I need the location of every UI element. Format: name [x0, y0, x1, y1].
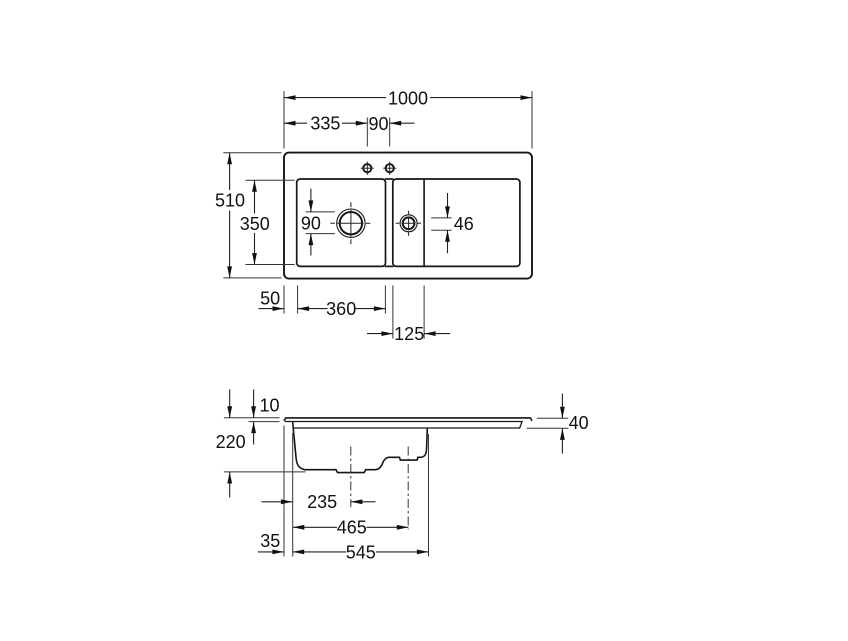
main bowl (top view) — [297, 179, 386, 266]
svg-text:90: 90 — [368, 114, 388, 134]
dimension 90 (main drain diameter) — [301, 189, 335, 256]
dimension 335 (left edge to tap hole) — [284, 114, 367, 134]
dimension 10 (rim thickness) — [224, 390, 280, 445]
bowl profile (side view section) — [293, 422, 428, 473]
svg-text:235: 235 — [307, 492, 337, 512]
extension line at bowl right wall (side view) — [428, 434, 430, 557]
svg-text:35: 35 — [260, 531, 280, 551]
svg-text:220: 220 — [216, 432, 246, 452]
dimension 46 (half bowl drain diameter) — [431, 193, 474, 253]
half bowl and drainboard border (top view) — [393, 179, 520, 266]
divider line between half bowl and drainboard — [423, 179, 425, 266]
tap hole 2 — [383, 162, 396, 175]
svg-text:46: 46 — [454, 214, 474, 234]
rim underside and drainboard surface (side view) — [285, 422, 522, 429]
main drain centre line (side view) — [350, 447, 352, 508]
tap hole 1 — [361, 162, 374, 175]
dimension 465 (bowl edge to half bowl drain centre) — [293, 518, 409, 538]
svg-text:360: 360 — [326, 299, 356, 319]
svg-text:465: 465 — [337, 518, 367, 538]
svg-text:90: 90 — [301, 214, 321, 234]
dimension 220 (bowl depth) — [216, 390, 306, 498]
dimension 50 (left edge to bowl) — [259, 288, 285, 311]
sink outer outline (top view) — [284, 153, 532, 279]
svg-text:10: 10 — [259, 396, 279, 416]
bottom edge segment across bowl divider — [385, 265, 394, 267]
half bowl drain hole — [396, 211, 421, 236]
dimension 545 (bowl edge to bowl right wall) — [293, 542, 429, 562]
dimension 125 (half bowl width) — [367, 324, 450, 344]
svg-text:510: 510 — [215, 190, 245, 210]
dimension 235 (bowl edge to main drain centre) — [262, 492, 376, 512]
main bowl drain hole — [330, 202, 371, 245]
half bowl drain centre line (side view) — [407, 447, 409, 530]
dimension 350 (bowl depth, left) — [240, 180, 295, 264]
svg-text:50: 50 — [260, 288, 280, 308]
dimension 40 (rim height, right) — [527, 394, 589, 454]
svg-text:335: 335 — [310, 114, 340, 134]
svg-text:40: 40 — [569, 413, 589, 433]
dimension 360 (main bowl width) — [298, 299, 386, 319]
svg-text:350: 350 — [240, 214, 270, 234]
svg-text:1000: 1000 — [388, 88, 428, 108]
extension line at sink left edge (side view) — [283, 426, 285, 557]
dimension 510 (overall depth, left) — [215, 153, 282, 278]
dimension 90 (tap hole spacing) — [367, 114, 414, 147]
svg-text:125: 125 — [394, 324, 424, 344]
dimension 1000 (overall width, top) — [284, 88, 532, 148]
dimension 35 (sink edge to bowl) — [258, 531, 284, 554]
extension line at bowl left wall (side view) — [292, 433, 294, 557]
svg-text:545: 545 — [346, 542, 376, 562]
top edge segment across bowl divider — [385, 178, 394, 180]
rim top surface (side view) — [284, 418, 532, 421]
extension lines below outline (for 50/360/125) — [283, 286, 285, 314]
